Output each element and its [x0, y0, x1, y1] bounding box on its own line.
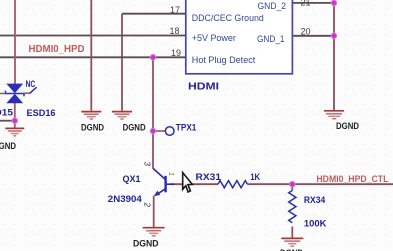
ground DGND (under ESD): [5, 128, 24, 135]
svg-text:Hot Plug Detect: Hot Plug Detect: [192, 55, 256, 65]
ground DGND 4 (under RX34): [281, 238, 303, 246]
junction node pin19/collector: [150, 55, 155, 60]
ground DGND 5 (under transistor): [143, 228, 165, 236]
svg-text:DGND: DGND: [336, 121, 359, 132]
svg-text:NC: NC: [26, 79, 36, 90]
wire vertical from top to DGND left: [90, 0, 92, 111]
ground DGND 1 (x=91): [81, 112, 101, 119]
wire pin20 stub: [292, 35, 334, 37]
junction node TPX1: [150, 128, 155, 133]
wire ESD diode bottom: [14, 103, 16, 121]
wire pin17 net horizontal: [122, 13, 186, 15]
svg-text:RX31: RX31: [196, 172, 222, 183]
resistor RX31: [218, 181, 247, 188]
ESD suppressor center bar: [6, 91, 25, 97]
svg-text:DGND: DGND: [0, 141, 16, 152]
wire HPD net (pin 19): [0, 56, 186, 58]
svg-text:3: 3: [143, 162, 152, 167]
wire pin21 stub: [292, 2, 334, 4]
svg-text:DDC/CEC Ground: DDC/CEC Ground: [192, 13, 264, 23]
wire RX31 to HDMI0_HPD_CTL: [248, 183, 393, 185]
wire HPD to collector vertical: [152, 57, 154, 168]
svg-text:1K: 1K: [250, 172, 260, 183]
junction node ESD ground: [12, 118, 17, 123]
junction node pin21: [331, 0, 336, 5]
resistor RX34: [289, 191, 296, 223]
svg-text:2: 2: [143, 202, 152, 208]
svg-text:1: 1: [167, 172, 174, 176]
svg-text:D15: D15: [0, 108, 14, 119]
transistor QX1 base bar: [164, 176, 166, 192]
junction node RX31/RX34: [290, 182, 295, 187]
HDMI connector box U1: [186, 0, 293, 74]
ESD left pin stub: [0, 93, 6, 95]
svg-text:2N3904: 2N3904: [108, 194, 143, 205]
ground DGND 3 (x=334): [324, 111, 344, 119]
svg-text:20: 20: [301, 26, 311, 36]
svg-text:DGND: DGND: [133, 239, 159, 250]
transistor QX1 emitter lead: [155, 189, 166, 196]
wire emitter to DGND: [153, 196, 155, 228]
svg-text:QX1: QX1: [123, 174, 142, 185]
svg-text:17: 17: [170, 5, 180, 15]
ESD suppressor D15 bowtie: [6, 84, 23, 104]
no-connect slash: [30, 87, 37, 93]
wire TPX1 stub: [153, 130, 165, 132]
svg-text:DGND: DGND: [81, 122, 104, 133]
wire stub ESD node to ground: [14, 121, 16, 129]
wire RX34 top stub: [291, 184, 293, 190]
wire +5V net (pin 18): [0, 35, 186, 37]
svg-text:GND_1: GND_1: [257, 34, 285, 44]
transistor QX1 emitter arrow: [154, 191, 160, 196]
wire to left edge at ESD ground node: [0, 120, 15, 122]
svg-text:GND_2: GND_2: [258, 1, 287, 11]
svg-text:DGND: DGND: [123, 122, 146, 133]
svg-text:HDMI: HDMI: [188, 82, 219, 93]
svg-text:+5V Power: +5V Power: [192, 33, 236, 43]
svg-text:RX34: RX34: [304, 195, 326, 206]
wire RX34 bottom stub: [291, 227, 293, 239]
svg-text:19: 19: [171, 48, 181, 58]
svg-text:21: 21: [301, 0, 311, 8]
mouse cursor: [183, 173, 193, 192]
svg-text:TPX1: TPX1: [176, 123, 197, 134]
svg-text:100K: 100K: [304, 219, 327, 230]
test point TPX1 circle: [165, 127, 174, 136]
ground DGND 2 (x=122): [112, 112, 132, 119]
svg-text:HDMI0_HPD: HDMI0_HPD: [29, 44, 85, 55]
junction node pin20: [331, 33, 336, 38]
svg-text:18: 18: [169, 26, 179, 36]
wire pin17 net vertical to DGND: [121, 14, 123, 111]
transistor QX1 base lead: [166, 183, 175, 185]
svg-text:ESD16: ESD16: [27, 108, 56, 119]
ESD NC pin stub: [23, 92, 31, 94]
transistor QX1 collector lead: [153, 168, 166, 179]
svg-text:HDMI0_HPD_CTL: HDMI0_HPD_CTL: [316, 174, 388, 185]
wire vertical GND_2/GND_1 to DGND: [333, 0, 335, 110]
wire base to RX31: [170, 183, 218, 185]
wire vertical from top to ESD diode: [14, 0, 16, 84]
